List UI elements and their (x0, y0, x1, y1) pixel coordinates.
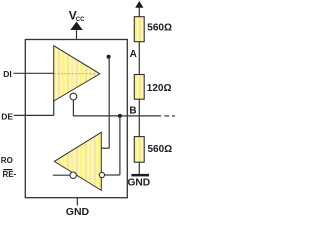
svg-text:B: B (129, 105, 136, 116)
svg-text:120Ω: 120Ω (147, 83, 172, 94)
svg-text:RE: RE (3, 170, 15, 179)
svg-text:DI: DI (3, 69, 12, 79)
svg-text:RO: RO (1, 156, 13, 165)
svg-text:DE: DE (1, 111, 13, 121)
svg-text:560Ω: 560Ω (148, 144, 173, 155)
svg-text:-: - (14, 170, 17, 179)
svg-text:GND: GND (66, 206, 90, 216)
svg-text:560Ω: 560Ω (147, 22, 172, 33)
svg-text:A: A (130, 49, 137, 60)
svg-text:CC: CC (76, 17, 85, 23)
svg-text:GND: GND (128, 178, 151, 189)
